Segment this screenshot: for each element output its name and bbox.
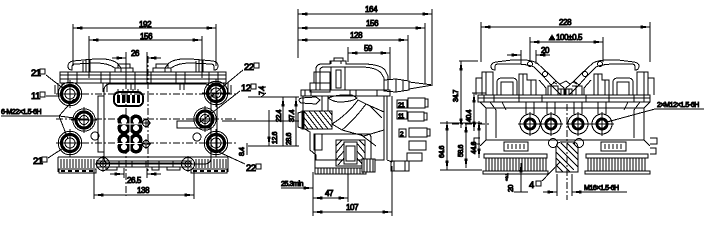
port 22 crosshair — [202, 79, 230, 107]
base pads — [106, 167, 180, 170]
port 12 outer edge — [194, 108, 216, 130]
label 2xM12x1.5-6H — [607, 102, 704, 122]
svg-text:47: 47 — [325, 189, 334, 198]
dim 228 — [481, 18, 650, 62]
ref line bottom stack — [440, 123, 482, 170]
dim 20 vertical bottom — [504, 163, 528, 192]
port 21 low crosshair — [56, 129, 84, 157]
top center block right — [153, 64, 171, 72]
dim 138 — [94, 170, 194, 199]
diag braces — [322, 96, 382, 146]
left handle bracket — [497, 78, 517, 95]
svg-text:128: 128 — [350, 31, 363, 40]
centerline h low ports — [56, 142, 236, 144]
svg-text:22.4: 22.4 — [276, 109, 283, 122]
dim 64.6 — [439, 121, 447, 170]
svg-text:21: 21 — [33, 156, 43, 167]
port tag 2 — [399, 129, 406, 138]
right handle bracket — [613, 78, 633, 95]
svg-text:21: 21 — [398, 102, 405, 109]
svg-text:156: 156 — [366, 19, 379, 28]
bolt circle 2 — [539, 112, 563, 136]
centerline — [566, 104, 568, 200]
cone tip line — [396, 79, 403, 92]
label 4 box — [529, 162, 560, 191]
dim 164 — [298, 5, 432, 84]
foot bolt left — [95, 156, 111, 172]
foot pad slot — [346, 146, 355, 161]
dim 59 — [348, 44, 390, 80]
base ribs mid — [315, 168, 366, 174]
port 22 low crosshair — [202, 129, 230, 157]
foot pad inner hatched ring — [336, 140, 365, 166]
svg-text:58.6: 58.6 — [458, 144, 465, 157]
port 22 outer edge — [204, 81, 228, 105]
top cover outline — [316, 61, 388, 90]
port 21 outer edge — [58, 82, 82, 106]
right slab column — [637, 72, 654, 95]
svg-text:228: 228 — [559, 18, 572, 27]
svg-text:20: 20 — [541, 46, 550, 55]
left column block — [314, 134, 322, 150]
top swoop right ear — [165, 59, 218, 72]
cover inner lines — [320, 58, 384, 90]
svg-text:4: 4 — [529, 180, 534, 191]
port tag 11 — [397, 111, 407, 120]
right swoop arc — [574, 60, 639, 85]
mounting plate edge-on — [301, 90, 390, 96]
center posts — [519, 74, 536, 95]
svg-text:138: 138 — [137, 186, 150, 195]
svg-text:2×M12×1.5-6H: 2×M12×1.5-6H — [657, 102, 699, 109]
dim M16 port width — [543, 174, 586, 196]
svg-text:107: 107 — [346, 203, 359, 212]
foot bolt right — [180, 156, 196, 172]
dim 28.6 — [286, 132, 293, 145]
centerline h mid ports — [56, 118, 236, 120]
mid body right ext — [391, 166, 393, 216]
bolt circle 3 — [566, 112, 590, 136]
port tag 21 — [397, 100, 407, 109]
svg-text:156: 156 — [140, 32, 153, 41]
top swoop left ear — [68, 59, 121, 72]
dim 22.4 — [276, 97, 283, 146]
left edge tabs — [474, 138, 480, 144]
port 12 crosshair — [192, 106, 218, 132]
leg right — [624, 102, 640, 138]
cover small caps — [331, 67, 345, 90]
base rails — [96, 161, 192, 167]
center boss hatched — [556, 142, 578, 172]
port 21 low-left ring — [62, 135, 79, 152]
lever band — [332, 100, 366, 130]
port 11 crosshair — [71, 107, 97, 133]
wedge right — [342, 104, 384, 136]
body main rect — [104, 84, 211, 164]
rivet mid — [141, 118, 151, 128]
svg-text:M16×1.5-6H: M16×1.5-6H — [584, 185, 619, 192]
connector low gears — [117, 133, 143, 154]
left horn fitting — [299, 97, 320, 104]
port 12 mid-right ring — [197, 111, 213, 127]
foot base band left — [59, 169, 96, 173]
svg-text:28.6: 28.6 — [286, 132, 293, 145]
left swoop arc — [491, 60, 556, 85]
left diag brace — [539, 80, 564, 95]
leg left — [490, 102, 506, 138]
small circle left — [91, 132, 99, 140]
dim 156 — [89, 32, 202, 78]
right diag brace — [566, 80, 591, 95]
svg-text:164: 164 — [365, 5, 378, 14]
bottom left rib end — [362, 159, 375, 172]
left upper block — [310, 72, 330, 92]
top post left — [83, 59, 90, 72]
svg-text:34.7: 34.7 — [453, 89, 460, 102]
svg-text:22: 22 — [244, 62, 254, 73]
foot comb left — [483, 154, 548, 174]
lower body outline — [480, 102, 650, 146]
center middle blocks — [548, 86, 582, 95]
dim 156 — [298, 19, 425, 84]
svg-text:12: 12 — [241, 83, 251, 94]
svg-text:37.4: 37.4 — [289, 109, 296, 122]
label M16x1.5-6H — [583, 185, 627, 192]
port 22 low outer edge — [204, 131, 228, 155]
centerline vertical A — [125, 56, 127, 196]
small circle left — [549, 139, 558, 148]
svg-text:11: 11 — [398, 113, 405, 120]
svg-text:59: 59 — [364, 44, 373, 53]
svg-text:25.3min: 25.3min — [281, 181, 304, 188]
svg-text:26: 26 — [131, 49, 140, 58]
svg-text:2: 2 — [400, 131, 404, 138]
dim 128 — [298, 31, 408, 80]
centerline h top ports — [56, 93, 236, 95]
right swoop cap circles — [598, 62, 603, 67]
right fittings stack — [407, 98, 430, 161]
svg-text:12.6: 12.6 — [272, 131, 279, 144]
svg-text:11: 11 — [31, 91, 40, 102]
dim 192 — [73, 20, 216, 66]
foot comb right — [585, 154, 650, 174]
svg-text:64.6: 64.6 — [439, 145, 446, 158]
svg-text:20: 20 — [508, 185, 515, 192]
base plate — [58, 157, 228, 172]
bolt stems — [526, 102, 606, 114]
connector top oval — [114, 89, 143, 106]
port 22 top-right ring — [208, 85, 225, 102]
dim 37.4 — [289, 97, 296, 146]
dim 40.4 — [466, 93, 486, 131]
label 25.3min — [281, 181, 313, 188]
dim 58.6 — [458, 123, 466, 168]
ports centerline ext — [452, 123, 490, 125]
foot pad outer — [315, 134, 371, 168]
dim 100+-0.5 — [530, 33, 603, 62]
label 22 bottom-right — [210, 148, 261, 174]
slot left — [504, 142, 528, 151]
dim 26 top — [112, 49, 161, 84]
bolt circle 4 — [590, 112, 614, 136]
bolt circle 1 — [518, 112, 542, 136]
dim 8.4 rotated — [239, 143, 247, 156]
dim 44.6 — [471, 121, 479, 158]
slot right — [601, 142, 626, 151]
body inner edge — [98, 96, 217, 152]
hatched knob left — [298, 111, 332, 129]
left slab column — [55, 83, 135, 94]
svg-text:8.4: 8.4 — [239, 147, 246, 156]
top plate — [478, 95, 650, 102]
top horn spear — [328, 95, 357, 102]
foot ribs left — [61, 159, 94, 168]
port 11 outer edge — [73, 109, 95, 131]
label 21 top-left — [31, 68, 64, 89]
port 21 low outer edge — [58, 131, 82, 155]
body mid outline — [303, 96, 384, 160]
svg-text:100±0.5: 100±0.5 — [556, 33, 583, 42]
top post right — [196, 59, 203, 72]
left swoop cap circles — [528, 62, 533, 67]
right edge tabs — [650, 138, 657, 154]
right cone fitting — [384, 79, 433, 92]
port 11 mid-left ring — [76, 112, 92, 128]
svg-text:40.4: 40.4 — [466, 109, 473, 122]
dim 34.7 — [453, 61, 478, 128]
label 12 — [199, 83, 256, 123]
rivet low — [141, 139, 151, 149]
label 22 top-right — [208, 62, 259, 99]
top plate band — [60, 72, 226, 83]
foot ribs right — [196, 159, 226, 168]
port 21 top-left ring — [62, 86, 79, 103]
port 22 low-right ring — [208, 135, 225, 152]
right center posts — [594, 74, 609, 95]
left slab column — [476, 72, 493, 95]
dim 107 — [313, 203, 392, 212]
dim 47 — [313, 172, 348, 216]
nameplate — [177, 121, 211, 128]
svg-text:22: 22 — [246, 163, 256, 174]
port 21 crosshair — [56, 80, 84, 108]
right slab column — [180, 83, 231, 94]
small circle right — [193, 133, 201, 141]
dim 12.6 — [269, 110, 279, 146]
right stack ref ticks — [222, 97, 299, 146]
connector mid gears — [117, 114, 143, 135]
dim 7.4 small near 12 — [258, 86, 266, 97]
svg-text:21: 21 — [31, 68, 41, 79]
svg-text:6-M22×1.5-6H: 6-M22×1.5-6H — [1, 109, 41, 116]
svg-text:26.5: 26.5 — [127, 176, 142, 185]
center tiny parts — [553, 81, 577, 84]
label 11 — [31, 91, 61, 102]
label 6-M22x1.5-6H — [1, 99, 82, 139]
bottom right foot — [391, 161, 409, 171]
label 21 bottom-left — [33, 147, 65, 167]
right block column — [387, 96, 392, 162]
centerline vertical B — [147, 56, 149, 172]
small circle right — [575, 139, 584, 148]
top plate ticks — [68, 72, 218, 83]
dim 20 — [507, 46, 550, 64]
svg-text:192: 192 — [139, 20, 152, 29]
foot base band right — [191, 169, 227, 173]
top center block left — [115, 64, 133, 72]
dim 26.5 bottom — [110, 168, 161, 185]
